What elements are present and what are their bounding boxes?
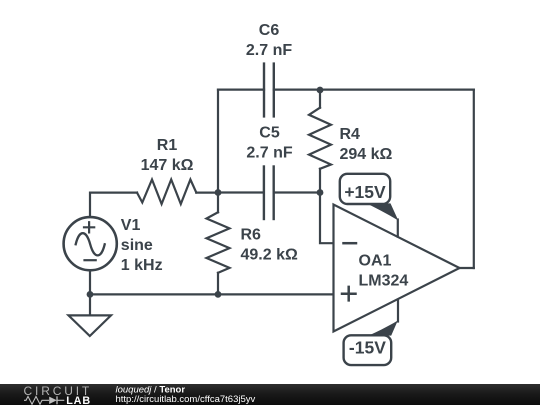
wire top rail left (C6 left lead) bbox=[218, 88, 264, 90]
svg-text:+15V: +15V bbox=[344, 182, 386, 202]
wire R1 to node A bbox=[196, 192, 218, 194]
wire top rail right (C6 to right rail) bbox=[274, 88, 474, 90]
svg-text:LM324: LM324 bbox=[359, 272, 409, 289]
wire bottom rail bbox=[90, 293, 334, 295]
svg-text:http://circuitlab.com/cffca7t6: http://circuitlab.com/cffca7t63j5yv bbox=[116, 394, 256, 405]
op-amp U1 triangle bbox=[334, 205, 460, 332]
voltage source V1 bbox=[64, 217, 117, 270]
node top rail junction dot bbox=[317, 87, 324, 94]
wire V1 top to R1 bbox=[90, 193, 137, 217]
resistor R4 bbox=[309, 90, 331, 193]
svg-text:294 kΩ: 294 kΩ bbox=[340, 146, 393, 163]
capacitor C6 bbox=[264, 64, 274, 117]
svg-text:49.2 kΩ: 49.2 kΩ bbox=[241, 247, 298, 264]
wire V1 bottom bbox=[89, 270, 91, 294]
node A junction dot bbox=[215, 189, 222, 196]
op-amp V- pin wire bbox=[397, 300, 399, 322]
svg-text:R6: R6 bbox=[241, 227, 262, 244]
logo doodle wire-resistor-diode bbox=[24, 396, 64, 404]
op-amp minus symbol bbox=[344, 242, 357, 245]
capacitor C5 bbox=[218, 167, 320, 220]
svg-text:2.7 nF: 2.7 nF bbox=[246, 42, 292, 59]
-15V flag box bbox=[344, 335, 392, 365]
-15V flag tail bbox=[369, 321, 398, 336]
+15V flag tail bbox=[366, 203, 398, 221]
node bottom rail R6 junction dot bbox=[215, 291, 222, 298]
footer bar bbox=[0, 384, 540, 405]
op-amp plus symbol bbox=[342, 287, 356, 301]
svg-text:147 kΩ: 147 kΩ bbox=[141, 157, 194, 174]
svg-text:C6: C6 bbox=[259, 22, 280, 39]
svg-text:LAB: LAB bbox=[66, 395, 91, 405]
svg-text:sine: sine bbox=[121, 237, 153, 254]
svg-text:OA1: OA1 bbox=[359, 252, 392, 269]
wire node B to op-amp minus input bbox=[320, 193, 334, 244]
op-amp V+ pin wire bbox=[397, 220, 399, 237]
svg-text:-15V: -15V bbox=[349, 338, 386, 358]
svg-text:1 kHz: 1 kHz bbox=[121, 257, 163, 274]
resistor R1 bbox=[137, 180, 196, 205]
svg-text:R4: R4 bbox=[340, 126, 361, 143]
wire left vertical (node A to top rail) bbox=[217, 90, 219, 193]
wire right rail down bbox=[473, 90, 475, 268]
+15V flag box bbox=[340, 174, 390, 204]
svg-text:C5: C5 bbox=[259, 125, 280, 142]
resistor R6 bbox=[207, 193, 230, 295]
node bottom rail V1 junction dot bbox=[87, 291, 94, 298]
svg-text:2.7 nF: 2.7 nF bbox=[246, 145, 292, 162]
ground bbox=[69, 294, 112, 336]
wire op-amp output bbox=[460, 267, 474, 269]
svg-text:V1: V1 bbox=[121, 217, 141, 234]
svg-text:R1: R1 bbox=[157, 137, 178, 154]
node B junction dot bbox=[317, 189, 324, 196]
